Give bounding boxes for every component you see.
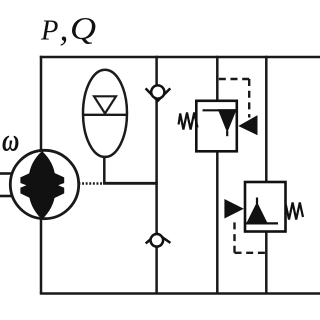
wire middle vertical (check valve branch) [155, 56, 158, 294]
wire relief valve 1 column [216, 56, 219, 294]
dotted drain line pump to branch [79, 182, 103, 185]
shaft line upper (drive shaft) [0, 172, 13, 175]
check valve CV2 ball [151, 234, 164, 247]
dashed pilot line valve RV2 horizontal [235, 252, 266, 254]
svg-text:P: P [40, 15, 58, 46]
relief valve RV1 internal arrow [218, 109, 237, 133]
wire bottom return bus [40, 292, 320, 295]
pump/motor M1 lens element [28, 151, 55, 220]
accumulator A1 shell [83, 70, 127, 157]
relief valve RV1 internal line [203, 109, 237, 111]
relief valve RV1 arrow tail [226, 131, 228, 136]
pump/motor M1 right tips cluster [54, 173, 64, 198]
wire branch accumulator to check-valve line [103, 182, 158, 185]
wire relief valve 2 column [265, 56, 268, 294]
relief valve RV2 internal line [246, 222, 279, 224]
relief valve RV2 spring [286, 203, 303, 220]
pump/motor M1 left tips cluster [20, 173, 30, 198]
relief valve RV2 arrow tail [256, 198, 258, 205]
check valve CV2 seat [146, 234, 171, 244]
dashed pilot line valve RV2 vertical [233, 218, 235, 253]
dashed pilot line valve RV1 horizontal [218, 78, 250, 80]
check valve CV1 seat [146, 88, 171, 101]
relief valve RV2 internal arrow [246, 202, 268, 224]
svg-text:Q: Q [70, 11, 96, 47]
pump/motor M1 circle [10, 150, 78, 218]
relief valve RV2 pilot triangle [224, 199, 243, 219]
relief valve RV1 spring [179, 113, 198, 130]
wire left vertical (pump branch) [40, 56, 43, 294]
wire top bus P,Q [40, 56, 320, 59]
svg-text:ω: ω [2, 123, 19, 158]
check valve CV1 ball [151, 85, 164, 98]
wire accumulator stem [103, 154, 106, 184]
relief valve RV2 body [245, 182, 286, 232]
accumulator A1 separator line [83, 114, 126, 116]
svg-text:,: , [60, 8, 69, 48]
accumulator A1 gas triangle [94, 96, 116, 113]
label omega [2, 123, 19, 158]
relief valve RV1 pilot triangle [238, 115, 257, 135]
shaft line lower (drive shaft) [0, 195, 13, 198]
dashed pilot line valve RV1 vertical [248, 79, 250, 118]
relief valve RV1 body [196, 101, 237, 152]
